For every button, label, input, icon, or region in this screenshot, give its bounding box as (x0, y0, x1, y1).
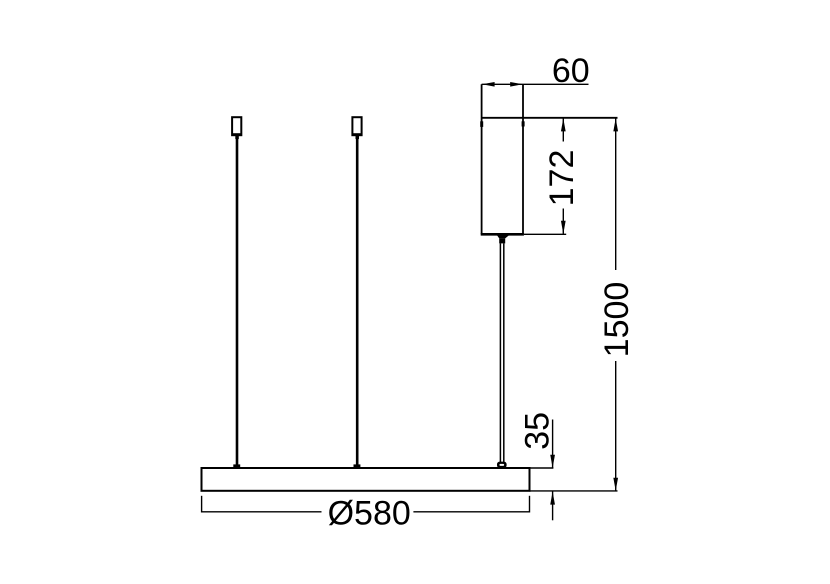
dimension 172 arrow down (561, 221, 566, 234)
dimension 172 line bottom (562, 209, 564, 234)
diameter 580 dim line left segment (202, 511, 322, 513)
diameter 580 extension left (201, 496, 203, 513)
dimension 60 line (482, 83, 589, 85)
wire foot left (233, 464, 240, 468)
svg-text:Ø580: Ø580 (328, 495, 411, 533)
dimension 60 arrow right (510, 82, 523, 87)
bar bottom right extension line (1500 dim) (530, 490, 618, 492)
dimension 1500 arrow up (613, 118, 618, 131)
bar top right extension line (35 dim) (530, 467, 554, 469)
lamp bar (ring profile) (202, 468, 530, 491)
dimension 35 line top (552, 420, 554, 468)
svg-text:172: 172 (543, 150, 581, 207)
cable gripper left (232, 117, 242, 139)
svg-text:1500: 1500 (598, 282, 636, 358)
dimension 35 arrow down (550, 455, 555, 468)
dimension 1500 line bottom (615, 361, 617, 491)
canopy inner tick left (480, 121, 483, 127)
cable gripper right (352, 117, 362, 139)
rod cone under canopy (497, 235, 509, 238)
dimension 60 arrow left (482, 82, 495, 87)
dimension 1500 arrow down (613, 478, 618, 491)
diameter 580 dim line right segment (413, 511, 529, 513)
suspension wire right (356, 139, 359, 465)
diameter 580 extension right (529, 496, 531, 513)
power rod (double line) (500, 243, 503, 462)
dimension 172 arrow up (561, 118, 566, 131)
canopy box (481, 84, 524, 234)
dimension 1500 line top (615, 118, 617, 270)
svg-text:35: 35 (519, 412, 557, 450)
top extension line (canopy top to 1500 dim) (482, 117, 618, 119)
suspension wire left (236, 139, 239, 465)
dimension 172 line top (562, 118, 564, 141)
svg-text:60: 60 (552, 52, 590, 90)
rod bottom ball (497, 462, 507, 468)
rod top nub (499, 238, 505, 243)
canopy inner tick right (522, 121, 525, 126)
canopy bottom extension line (172 dim) (524, 233, 566, 235)
dimension 35 line bottom (552, 492, 554, 521)
dimension 35 arrow up (550, 491, 555, 504)
wire foot right (354, 464, 361, 468)
